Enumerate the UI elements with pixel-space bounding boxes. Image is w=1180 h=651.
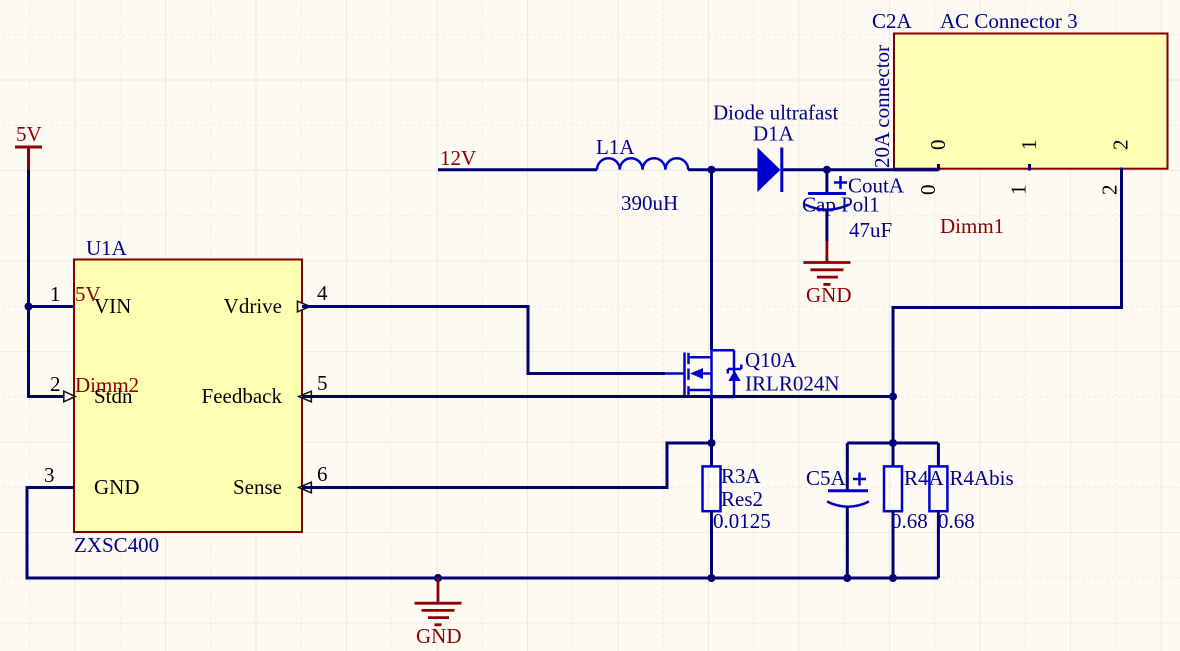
svg-text:1: 1 <box>1007 185 1031 196</box>
svg-text:R3A: R3A <box>721 464 762 488</box>
svg-text:390uH: 390uH <box>621 191 678 215</box>
svg-text:6: 6 <box>317 462 328 486</box>
svg-text:AC Connector 3: AC Connector 3 <box>940 9 1078 33</box>
wire top of parallel group <box>847 442 938 445</box>
svg-text:0.68: 0.68 <box>938 509 975 533</box>
transistor Q10A <box>665 350 741 397</box>
wire inductor to diode <box>688 168 757 171</box>
svg-text:ZXSC400: ZXSC400 <box>74 533 159 557</box>
capacitor CoutA <box>805 170 849 241</box>
svg-text:5V: 5V <box>75 282 101 306</box>
svg-text:12V: 12V <box>440 146 476 170</box>
svg-text:U1A: U1A <box>86 236 128 260</box>
svg-text:0.0125: 0.0125 <box>713 509 771 533</box>
wire 5V vertical <box>29 170 75 397</box>
svg-text:0: 0 <box>926 140 950 151</box>
wire diode to connector pin 0 <box>783 168 939 171</box>
svg-text:Vdrive: Vdrive <box>224 294 282 318</box>
wire Feedback <box>302 395 893 398</box>
svg-text:5V: 5V <box>16 122 42 146</box>
resistor R3A <box>710 443 713 466</box>
node drain tap <box>708 166 716 174</box>
svg-text:0: 0 <box>916 185 940 196</box>
svg-text:Cap Pol1: Cap Pol1 <box>802 193 880 217</box>
svg-text:4: 4 <box>317 281 328 305</box>
resistor R4A <box>892 443 895 466</box>
svg-text:GND: GND <box>416 624 462 648</box>
svg-text:1: 1 <box>50 282 61 306</box>
svg-text:L1A: L1A <box>596 135 635 159</box>
connector C2A body <box>894 34 1168 169</box>
ground symbol (bottom) <box>415 578 462 625</box>
node bottom: gnd <box>434 574 442 582</box>
node bottom: R3A <box>708 574 716 582</box>
wire source to R3A node <box>710 397 713 443</box>
svg-text:R4A: R4A <box>904 466 945 490</box>
svg-text:Sense: Sense <box>233 475 282 499</box>
wire right rail to parallel group <box>892 397 895 444</box>
diode D1A <box>757 148 780 193</box>
svg-text:0.68: 0.68 <box>891 509 928 533</box>
svg-text:D1A: D1A <box>753 122 795 146</box>
wire 12V over border <box>894 168 939 171</box>
wire VIN <box>29 305 75 308</box>
node VIN junction <box>25 303 33 311</box>
svg-text:GND: GND <box>806 283 852 307</box>
IC U1A body <box>74 260 302 533</box>
svg-text:1: 1 <box>1017 140 1041 151</box>
capacitor C5A <box>827 443 869 578</box>
pin 0 of C2A <box>937 164 940 171</box>
pin 1 of C2A <box>1028 164 1031 171</box>
node group top <box>889 439 897 447</box>
svg-text:20A connector: 20A connector <box>870 45 894 168</box>
wire Sense <box>302 443 712 488</box>
wire connector pin2 down and left <box>893 168 1122 397</box>
svg-text:C5A: C5A <box>806 466 847 490</box>
svg-text:5: 5 <box>317 371 328 395</box>
svg-text:Feedback: Feedback <box>202 384 283 408</box>
wire GND pin 3 to bottom rail <box>27 488 938 579</box>
resistor R4Abis <box>937 443 940 466</box>
svg-text:3: 3 <box>44 463 55 487</box>
wire drain <box>710 170 713 350</box>
svg-text:2: 2 <box>1098 185 1122 196</box>
svg-text:GND: GND <box>94 475 140 499</box>
node R3A top <box>708 439 716 447</box>
svg-text:IRLR024N: IRLR024N <box>745 372 840 396</box>
svg-text:R4Abis: R4Abis <box>950 466 1014 490</box>
node diode out junction <box>823 166 831 174</box>
wire Vdrive to gate <box>302 307 665 374</box>
svg-text:2: 2 <box>50 372 61 396</box>
wire 12V to inductor <box>438 168 597 171</box>
svg-text:47uF: 47uF <box>849 218 892 242</box>
node feedback/right rail <box>889 393 897 401</box>
svg-text:Dimm1: Dimm1 <box>940 214 1004 238</box>
power symbol 5V <box>15 122 42 170</box>
svg-text:Res2: Res2 <box>721 487 763 511</box>
node bottom: C5A <box>843 574 851 582</box>
svg-text:Dimm2: Dimm2 <box>75 373 139 397</box>
svg-text:2: 2 <box>1109 140 1133 151</box>
svg-text:C2A: C2A <box>872 9 913 33</box>
svg-text:Q10A: Q10A <box>745 348 797 372</box>
node bottom: R4A <box>889 574 897 582</box>
ground symbol (CoutA) <box>803 241 850 284</box>
inductor L1A <box>597 158 688 169</box>
